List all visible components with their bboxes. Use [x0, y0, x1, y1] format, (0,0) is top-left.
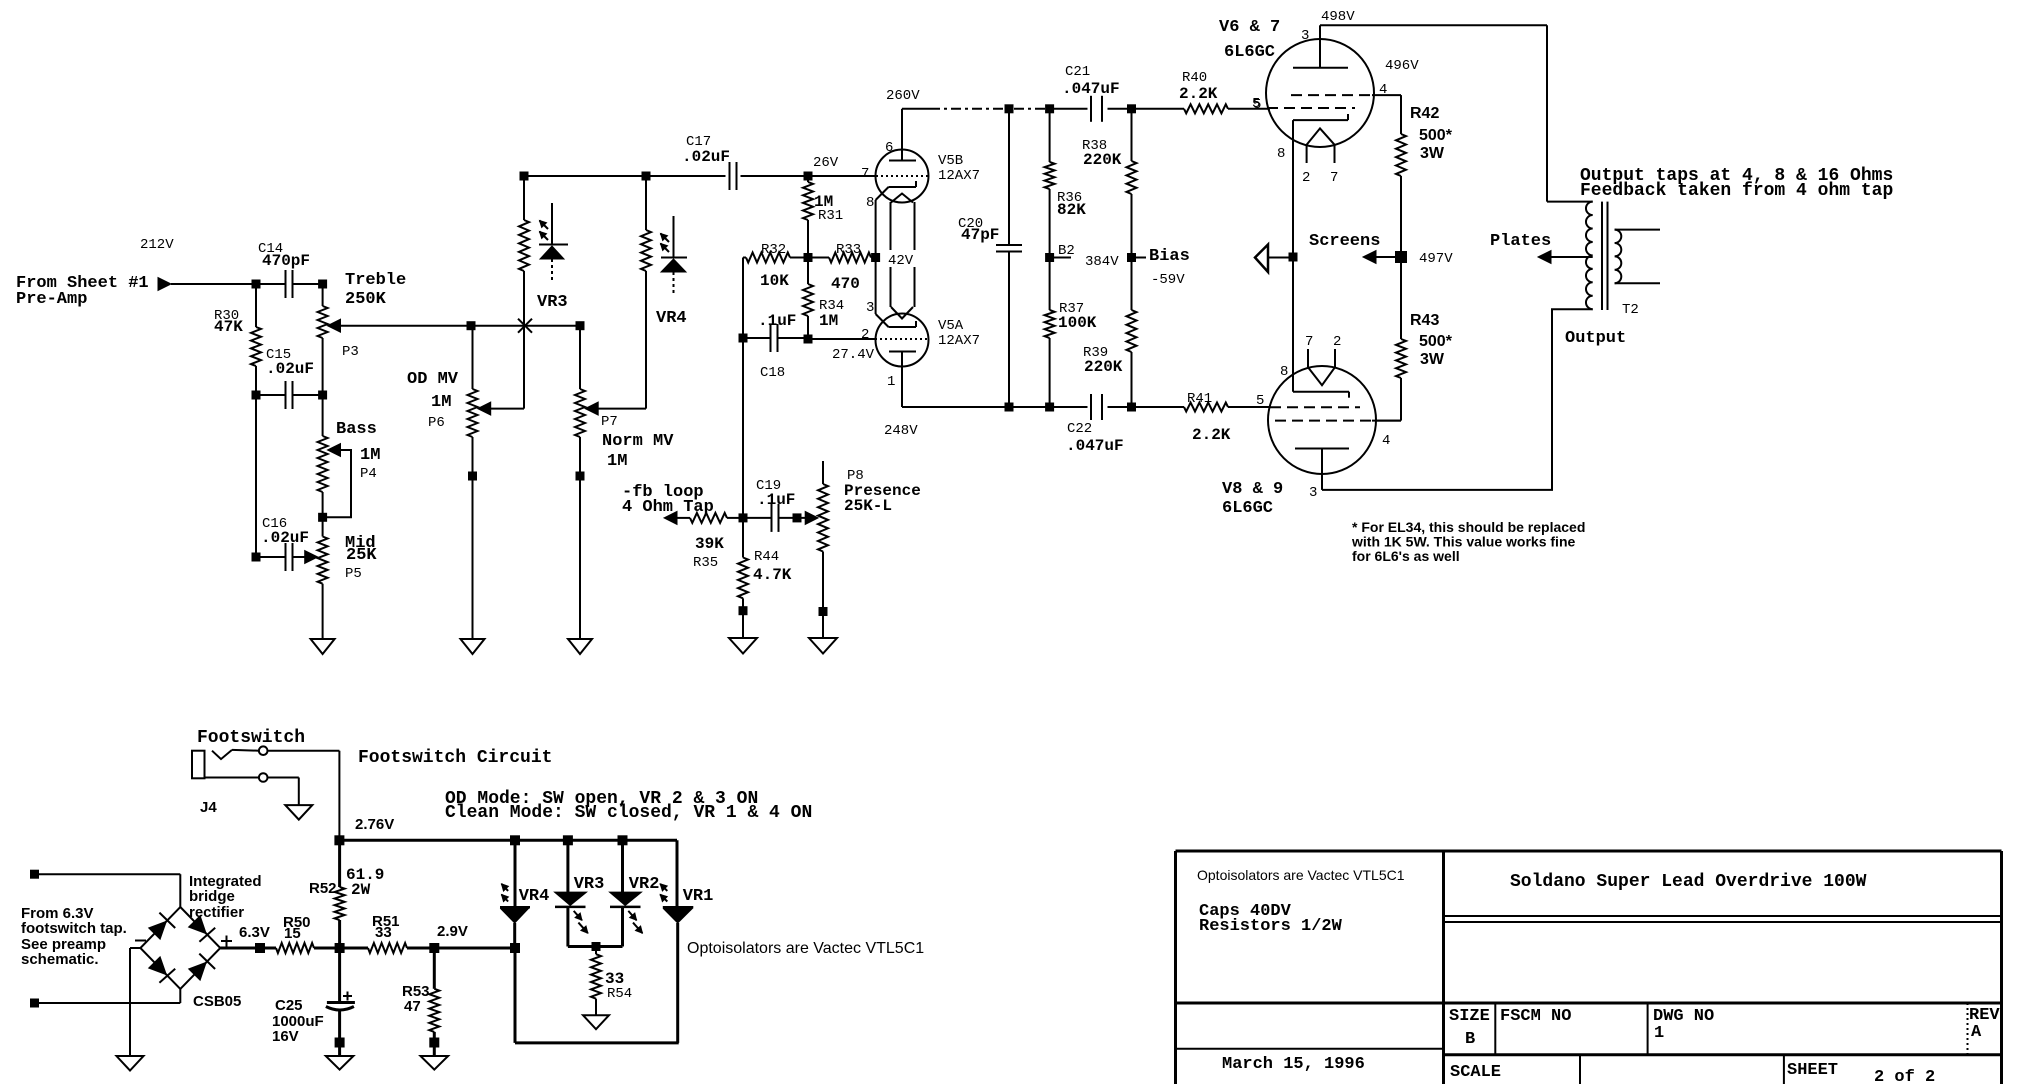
svg-text:SCALE: SCALE [1450, 1063, 1501, 1082]
svg-text:V5A: V5A [938, 318, 964, 334]
svg-text:V8 & 9: V8 & 9 [1222, 480, 1283, 499]
svg-text:Optoisolators are Vactec VTL5C: Optoisolators are Vactec VTL5C1 [1197, 867, 1405, 883]
svg-text:V6 & 7: V6 & 7 [1219, 18, 1280, 37]
svg-text:Screens: Screens [1309, 232, 1380, 251]
svg-text:2 of 2: 2 of 2 [1874, 1068, 1935, 1084]
svg-text:Resistors 1/2W: Resistors 1/2W [1199, 917, 1343, 936]
svg-text:P5: P5 [345, 566, 362, 582]
svg-text:39K: 39K [695, 535, 724, 553]
svg-text:33: 33 [375, 924, 392, 941]
svg-text:.1uF: .1uF [757, 491, 795, 509]
svg-text:VR3: VR3 [537, 293, 568, 312]
svg-text:250K: 250K [345, 290, 387, 309]
svg-text:.02uF: .02uF [261, 529, 309, 547]
svg-text:47pF: 47pF [961, 226, 999, 244]
svg-text:A: A [1971, 1023, 1982, 1042]
svg-text:-59V: -59V [1151, 272, 1185, 288]
svg-text:4.7K: 4.7K [753, 566, 792, 584]
svg-text:.047uF: .047uF [1066, 437, 1124, 455]
svg-text:.1uF: .1uF [758, 312, 796, 330]
svg-text:500*: 500* [1419, 127, 1453, 144]
svg-text:Treble: Treble [345, 271, 406, 290]
svg-text:500*: 500* [1419, 333, 1453, 350]
svg-text:T2: T2 [1622, 302, 1639, 318]
svg-text:25K: 25K [346, 546, 377, 565]
svg-text:6: 6 [885, 140, 893, 156]
svg-text:6.3V: 6.3V [239, 924, 270, 941]
svg-text:FSCM NO: FSCM NO [1500, 1007, 1571, 1026]
svg-text:schematic.: schematic. [21, 951, 99, 968]
svg-text:SIZE: SIZE [1449, 1007, 1490, 1026]
svg-text:Clean Mode: SW closed, VR 1 &: Clean Mode: SW closed, VR 1 & 4 ON [445, 803, 812, 823]
svg-text:8: 8 [866, 195, 874, 211]
svg-text:R44: R44 [754, 549, 779, 565]
svg-text:260V: 260V [886, 88, 920, 104]
svg-text:2.76V: 2.76V [355, 816, 394, 833]
svg-text:3W: 3W [1420, 351, 1445, 368]
svg-text:4 Ohm Tap: 4 Ohm Tap [622, 498, 714, 517]
svg-text:bridge: bridge [189, 888, 235, 905]
svg-text:27.4V: 27.4V [832, 347, 875, 363]
svg-text:R35: R35 [693, 555, 718, 571]
svg-text:4: 4 [1379, 82, 1387, 98]
svg-text:1M: 1M [814, 193, 833, 211]
svg-text:2W: 2W [351, 881, 371, 899]
svg-text:3W: 3W [1420, 145, 1445, 162]
svg-text:P7: P7 [601, 414, 618, 430]
svg-text:1M: 1M [360, 446, 380, 465]
svg-text:J4: J4 [200, 799, 217, 816]
svg-text:R33: R33 [836, 242, 861, 258]
svg-text:47K: 47K [214, 318, 243, 336]
svg-text:2.2K: 2.2K [1192, 426, 1231, 444]
svg-text:47: 47 [404, 998, 421, 1015]
svg-text:3: 3 [1309, 485, 1317, 501]
svg-text:497V: 497V [1419, 251, 1453, 267]
svg-text:12AX7: 12AX7 [938, 333, 980, 349]
svg-text:Norm MV: Norm MV [602, 432, 674, 451]
svg-text:R54: R54 [607, 986, 632, 1002]
svg-text:10K: 10K [760, 272, 789, 290]
svg-text:1M: 1M [607, 452, 627, 471]
svg-text:2: 2 [1333, 334, 1341, 350]
svg-text:P4: P4 [360, 466, 377, 482]
svg-text:42V: 42V [888, 253, 914, 269]
svg-text:VR2: VR2 [629, 875, 660, 894]
svg-text:3: 3 [1301, 28, 1309, 44]
svg-text:C22: C22 [1067, 421, 1092, 437]
svg-text:VR4: VR4 [656, 309, 687, 328]
svg-text:Plates: Plates [1490, 232, 1551, 251]
svg-text:footswitch tap.: footswitch tap. [21, 920, 127, 937]
svg-text:C25: C25 [275, 997, 303, 1014]
svg-text:2.2K: 2.2K [1179, 85, 1218, 103]
svg-text:6L6GC: 6L6GC [1222, 499, 1273, 518]
svg-text:2: 2 [1302, 170, 1310, 186]
svg-text:498V: 498V [1321, 9, 1355, 25]
svg-text:VR1: VR1 [683, 887, 714, 906]
svg-text:220K: 220K [1084, 358, 1123, 376]
svg-text:25K-L: 25K-L [844, 497, 892, 515]
svg-text:15: 15 [284, 925, 301, 942]
svg-text:B2: B2 [1058, 243, 1075, 259]
svg-text:7: 7 [1330, 170, 1338, 186]
svg-text:5: 5 [1256, 393, 1264, 409]
svg-text:384V: 384V [1085, 254, 1119, 270]
svg-text:Output: Output [1565, 329, 1626, 348]
svg-text:8: 8 [1280, 364, 1288, 380]
svg-text:8: 8 [1277, 146, 1285, 162]
svg-text:33: 33 [605, 970, 624, 988]
svg-text:26V: 26V [813, 155, 839, 171]
svg-text:VR4: VR4 [519, 887, 550, 906]
svg-text:C18: C18 [760, 365, 785, 381]
svg-text:.047uF: .047uF [1062, 80, 1120, 98]
svg-text:2: 2 [861, 327, 869, 343]
svg-text:V5B: V5B [938, 153, 963, 169]
svg-text:2.9V: 2.9V [437, 923, 468, 940]
svg-text:Bias: Bias [1149, 247, 1190, 266]
svg-text:12AX7: 12AX7 [938, 168, 980, 184]
svg-text:82K: 82K [1057, 201, 1086, 219]
svg-text:1M: 1M [431, 393, 451, 412]
svg-text:7: 7 [1305, 334, 1313, 350]
svg-text:1: 1 [1654, 1024, 1664, 1043]
svg-text:Feedback taken from 4 ohm tap: Feedback taken from 4 ohm tap [1580, 181, 1893, 201]
svg-text:4: 4 [1382, 433, 1390, 449]
svg-text:Soldano Super Lead Overdrive 1: Soldano Super Lead Overdrive 100W [1510, 872, 1867, 892]
svg-text:for 6L6's as well: for 6L6's as well [1352, 548, 1460, 564]
svg-text:R52: R52 [309, 880, 337, 897]
svg-text:5: 5 [1253, 97, 1261, 113]
svg-text:496V: 496V [1385, 58, 1419, 74]
svg-text:R42: R42 [1410, 105, 1439, 122]
svg-text:1M: 1M [819, 312, 838, 330]
svg-text:Bass: Bass [336, 420, 377, 439]
svg-text:C21: C21 [1065, 64, 1090, 80]
svg-text:Optoisolators are Vactec VTL5C: Optoisolators are Vactec VTL5C1 [687, 940, 924, 957]
svg-text:B: B [1465, 1030, 1475, 1049]
svg-text:rectifier: rectifier [189, 904, 244, 921]
svg-text:3: 3 [866, 300, 874, 316]
svg-text:Footswitch Circuit: Footswitch Circuit [358, 748, 552, 768]
svg-text:R40: R40 [1182, 70, 1207, 86]
svg-text:SHEET: SHEET [1787, 1061, 1838, 1080]
svg-text:R43: R43 [1410, 312, 1439, 329]
svg-text:OD MV: OD MV [407, 370, 459, 389]
svg-text:.02uF: .02uF [682, 148, 730, 166]
svg-text:212V: 212V [140, 237, 174, 253]
svg-text:100K: 100K [1058, 314, 1097, 332]
svg-text:R32: R32 [761, 242, 786, 258]
svg-text:March 15, 1996: March 15, 1996 [1222, 1055, 1365, 1074]
svg-text:1: 1 [887, 374, 895, 390]
svg-text:248V: 248V [884, 423, 918, 439]
svg-text:P6: P6 [428, 415, 445, 431]
svg-text:6L6GC: 6L6GC [1224, 43, 1275, 62]
svg-text:16V: 16V [272, 1028, 299, 1045]
svg-text:.02uF: .02uF [266, 360, 314, 378]
svg-text:7: 7 [861, 166, 869, 182]
svg-text:220K: 220K [1083, 151, 1122, 169]
svg-text:470pF: 470pF [262, 252, 310, 270]
svg-text:P3: P3 [342, 344, 359, 360]
svg-text:R41: R41 [1187, 391, 1212, 407]
svg-text:470: 470 [831, 275, 860, 293]
svg-text:Footswitch: Footswitch [197, 728, 305, 748]
svg-text:VR3: VR3 [574, 875, 605, 894]
svg-text:CSB05: CSB05 [193, 993, 241, 1010]
svg-text:Pre-Amp: Pre-Amp [16, 290, 87, 309]
